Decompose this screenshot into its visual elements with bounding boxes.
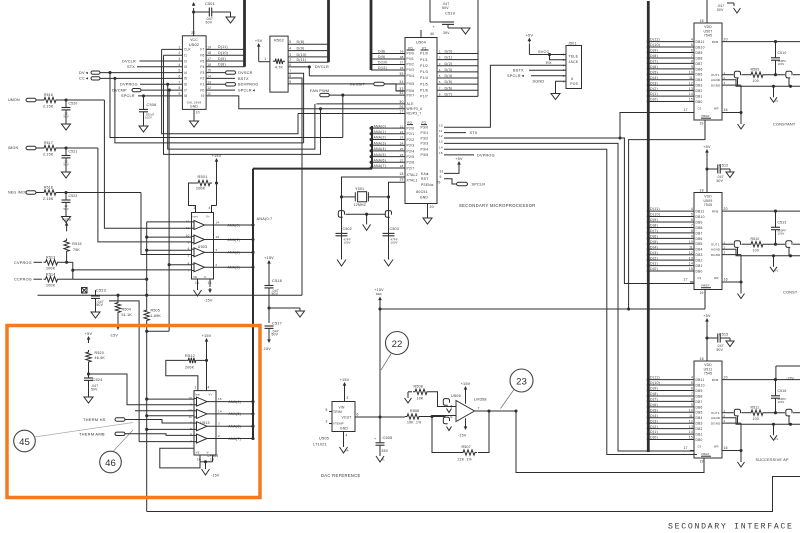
svg-text:19: 19 (700, 459, 704, 463)
svg-text:U502: U502 (189, 42, 200, 47)
svg-text:CVPROG: CVPROG (14, 261, 32, 265)
callout circle 22 (386, 332, 409, 355)
svg-text:22: 22 (400, 130, 404, 134)
svg-text:P2/6: P2/6 (407, 161, 415, 165)
svg-text:P3/4: P3/4 (421, 148, 429, 152)
main column continues to bottom (146, 323, 148, 512)
wire to U513 pin7 long vertical (109, 301, 139, 442)
svg-text:5: 5 (691, 213, 693, 217)
svg-text:TRIM: TRIM (333, 410, 342, 414)
svg-text:D(8): D(8) (297, 40, 305, 44)
svg-text:200K: 200K (185, 366, 195, 370)
digital ground at U509 (740, 255, 742, 294)
capacitor C505 (379, 417, 381, 443)
U507 RFB line (722, 41, 800, 43)
svg-text:+5V: +5V (455, 157, 463, 161)
svg-text:12: 12 (689, 251, 693, 255)
U511 RFB line (722, 379, 800, 381)
svg-text:DB8: DB8 (696, 394, 703, 398)
svg-text:DB10: DB10 (696, 45, 705, 49)
op-amp section out ANA(4) (197, 397, 208, 406)
svg-text:1: 1 (193, 206, 195, 210)
svg-text:30: 30 (399, 100, 403, 104)
svg-text:R507: R507 (462, 445, 471, 449)
svg-text:-15V: -15V (263, 347, 272, 351)
wire U502 pin1 CLK (162, 48, 183, 50)
svg-text:34: 34 (399, 80, 403, 84)
svg-text:10K: 10K (417, 397, 424, 401)
power +5V at C512 (706, 151, 708, 155)
svg-text:P3/2: P3/2 (421, 136, 429, 140)
svg-text:DB1: DB1 (696, 264, 703, 268)
svg-text:14: 14 (689, 92, 693, 96)
ground branch (269, 307, 300, 309)
svg-text:51.1K: 51.1K (122, 313, 133, 317)
wire output to U511 VREF (516, 411, 704, 473)
svg-text:4.7K: 4.7K (275, 65, 284, 69)
svg-text:R505: R505 (151, 308, 160, 312)
bus D(10) from U502 pin18 (206, 54, 244, 56)
op-amp section out ANA(6) (197, 422, 208, 431)
resistor R513 100K (44, 260, 60, 265)
svg-text:F1: F1 (200, 83, 204, 87)
svg-text:DGND: DGND (711, 421, 720, 425)
svg-text:ANA(7): ANA(7) (229, 437, 241, 441)
wire D(5) into U509 (648, 243, 694, 245)
svg-text:7: 7 (691, 54, 693, 58)
svg-text:6: 6 (179, 74, 181, 78)
svg-text:D(9): D(9) (378, 55, 385, 59)
svg-text:3: 3 (179, 57, 181, 61)
wire FAN PWM vertical (342, 95, 344, 137)
svg-text:XTAL2: XTAL2 (407, 173, 418, 177)
svg-text:39: 39 (400, 50, 404, 54)
svg-text:U506: U506 (451, 394, 461, 398)
wire D(11) into U504 pin 36 (371, 69, 405, 71)
svg-text:SUCCESSIVE AP: SUCCESSIVE AP (756, 458, 789, 462)
wire D(9) into U511 (648, 390, 694, 392)
svg-text:ALE: ALE (407, 102, 415, 106)
svg-text:I8: I8 (184, 94, 187, 98)
svg-text:GND: GND (420, 196, 429, 200)
wire VDD U509 (706, 155, 708, 193)
wire VCC to U502 (193, 8, 195, 36)
wire D(1) into U509 (648, 265, 694, 267)
svg-text:VL: VL (775, 437, 779, 441)
wire ANA(4) into U504 pin 25 (372, 150, 405, 152)
svg-text:1: 1 (264, 57, 266, 61)
svg-text:RFB: RFB (712, 40, 718, 44)
svg-text:DGND: DGND (711, 253, 720, 257)
svg-text:DB8: DB8 (696, 226, 703, 230)
svg-text:15: 15 (689, 267, 693, 271)
wire R506 to minus input (421, 416, 456, 417)
svg-text:P0/3: P0/3 (407, 68, 414, 72)
U509 RFB line (722, 210, 800, 212)
svg-text:ANA(5): ANA(5) (229, 412, 241, 416)
svg-text:AGND: AGND (711, 248, 720, 252)
svg-text:D(7): D(7) (650, 60, 658, 64)
svg-text:J501: J501 (568, 42, 577, 46)
svg-text:VL: VL (775, 99, 779, 103)
callout circle 23 (510, 369, 533, 392)
svg-text:22: 22 (392, 339, 403, 350)
svg-text:DB3: DB3 (696, 253, 703, 257)
svg-text:D(5): D(5) (650, 240, 658, 244)
resistor network R502 4.7K (270, 36, 288, 92)
svg-text:CLK: CLK (184, 48, 192, 52)
svg-text:5: 5 (179, 69, 181, 73)
wire P3/0 to J501 RX (444, 65, 566, 127)
svg-text:C506: C506 (147, 103, 157, 107)
svg-text:4: 4 (208, 385, 210, 389)
svg-text:LT1021: LT1021 (313, 442, 327, 446)
svg-text:D(7): D(7) (650, 229, 658, 233)
svg-text:BSTX: BSTX (238, 77, 249, 81)
wire +15V REF vertical (379, 300, 381, 417)
svg-text:3: 3 (218, 422, 220, 426)
ground at C520 (65, 110, 67, 124)
svg-text:19: 19 (207, 45, 211, 49)
svg-text:2.15K: 2.15K (43, 105, 54, 109)
wire U509 pin16 (722, 281, 741, 283)
svg-text:100: 100 (753, 249, 759, 253)
svg-text:P0/0: P0/0 (407, 52, 414, 56)
svg-text:DB9: DB9 (696, 51, 703, 55)
leader line 23 (501, 390, 515, 409)
svg-text:100K: 100K (46, 267, 56, 271)
wire ANA(1) into U504 pin 22 (372, 133, 405, 135)
svg-text:50V: 50V (717, 348, 724, 352)
power +5V at R502 (258, 45, 260, 49)
svg-text:50V: 50V (442, 6, 449, 10)
svg-text:IMON: IMON (8, 146, 18, 150)
wire ANA(0) into U504 pin 21 (372, 127, 405, 129)
svg-text:6: 6 (450, 415, 452, 419)
IC U513 quad comparator (194, 391, 216, 455)
svg-text:23: 23 (516, 376, 527, 387)
wire UMON route to U503 (104, 100, 191, 228)
svg-text:C517: C517 (272, 322, 282, 326)
svg-text:C518: C518 (272, 279, 282, 283)
svg-text:18: 18 (700, 19, 704, 23)
wire R502 pin9 to U504 P0/6 (288, 84, 405, 91)
svg-text:20: 20 (724, 38, 728, 42)
svg-text:7: 7 (188, 268, 190, 272)
ground at C523 (95, 298, 97, 312)
svg-text:18: 18 (399, 172, 403, 176)
svg-text:D(10): D(10) (378, 61, 388, 65)
svg-text:7545: 7545 (704, 371, 712, 375)
svg-text:2.15K: 2.15K (43, 153, 54, 157)
svg-text:8: 8 (691, 398, 693, 402)
svg-text:17: 17 (684, 108, 688, 112)
svg-text:+15V: +15V (202, 334, 212, 338)
svg-text:D(9): D(9) (297, 47, 305, 51)
svg-text:+: + (374, 437, 376, 441)
wire to U513 T4b (139, 441, 194, 443)
svg-text:P1/7: P1/7 (420, 95, 428, 99)
svg-text:R509: R509 (751, 67, 760, 71)
svg-text:5: 5 (691, 43, 693, 47)
svg-text:ANA(4): ANA(4) (229, 400, 241, 404)
svg-text:STX: STX (127, 65, 135, 69)
svg-text:10: 10 (196, 111, 200, 115)
wire D(8) into U504 pin 39 (371, 53, 405, 55)
op-amp section out ANA(5) (197, 409, 208, 418)
svg-text:+15V: +15V (212, 154, 222, 158)
ground at C512 (729, 169, 731, 172)
capacitor C506 (143, 96, 145, 110)
svg-text:P1/6: P1/6 (420, 88, 428, 92)
svg-text:RST: RST (421, 177, 428, 181)
svg-text:V+: V+ (206, 214, 210, 218)
svg-text:C522: C522 (69, 194, 78, 198)
resistor R516 2.15K (36, 99, 42, 101)
svg-text:8: 8 (190, 433, 192, 437)
wire R502 pin6 DVCLR (288, 66, 309, 68)
ANA bus thick horizontal (253, 168, 372, 170)
svg-text:DB9: DB9 (696, 389, 703, 393)
svg-text:ANA(3): ANA(3) (374, 141, 386, 145)
svg-text:4: 4 (691, 207, 693, 211)
svg-text:9: 9 (691, 65, 693, 69)
svg-text:DB10: DB10 (696, 383, 705, 387)
svg-text:CS: CS (698, 108, 702, 111)
resistor R506 19K (405, 414, 421, 419)
svg-text:-15V: -15V (204, 299, 213, 303)
svg-text:D(5): D(5) (445, 80, 453, 84)
wire P3/3 chip-select U511 (444, 143, 694, 451)
svg-text:THERM AMB: THERM AMB (79, 431, 105, 436)
wire D(6) into U509 (648, 237, 694, 239)
wire ANA(2) into U504 pin 23 (372, 139, 405, 141)
wire D(1) into U507 (648, 95, 694, 97)
svg-text:R515: R515 (72, 242, 81, 246)
svg-text:VOUT: VOUT (342, 416, 352, 420)
svg-text:V-: V- (204, 275, 207, 279)
svg-text:DB2: DB2 (696, 89, 703, 93)
svg-text:50V: 50V (206, 21, 213, 25)
svg-text:D(2): D(2) (650, 87, 658, 91)
svg-text:R517: R517 (44, 141, 53, 145)
svg-text:18: 18 (700, 188, 704, 192)
svg-text:14: 14 (689, 262, 693, 266)
svg-text:+5V: +5V (703, 145, 711, 149)
svg-text:26: 26 (399, 105, 403, 109)
svg-text:D(7): D(7) (445, 93, 453, 97)
wire ANA(3) into U504 pin 24 (372, 144, 405, 146)
signal BDVPROG from U502 pin13 (206, 83, 225, 85)
svg-text:ANA(1): ANA(1) (228, 238, 240, 242)
svg-text:DB6: DB6 (696, 67, 703, 71)
svg-text:D(1): D(1) (445, 56, 453, 60)
wire R502 pin3 D(10) (288, 56, 328, 58)
svg-text:20: 20 (724, 207, 728, 211)
svg-text:1.69K: 1.69K (151, 314, 162, 318)
svg-text:3: 3 (216, 248, 218, 252)
svg-text:OUT1: OUT1 (711, 242, 720, 246)
svg-text:D(2): D(2) (650, 256, 658, 260)
svg-text:13: 13 (689, 256, 693, 260)
svg-text:11: 11 (689, 245, 693, 249)
svg-text:6: 6 (190, 420, 192, 424)
capacitor C521 (65, 148, 67, 156)
svg-text:DB1: DB1 (696, 433, 703, 437)
svg-text:F4: F4 (200, 65, 204, 69)
svg-text:10: 10 (689, 240, 693, 244)
svg-text:DVCMP: DVCMP (112, 88, 127, 92)
svg-text:2: 2 (218, 434, 220, 438)
wire D(11) into U511 (648, 379, 694, 381)
svg-text:20: 20 (724, 376, 728, 380)
bus D(8) from U502 pin16 (206, 66, 244, 68)
ground at C506 (143, 112, 145, 126)
wire into U504 P0/4 (309, 75, 405, 77)
svg-text:DGND: DGND (711, 83, 720, 87)
svg-text:DVPROG: DVPROG (477, 154, 495, 158)
svg-text:D(1): D(1) (650, 92, 658, 96)
svg-text:F0: F0 (200, 88, 204, 92)
wire P3/4 write chain (444, 149, 697, 454)
svg-text:5: 5 (325, 408, 327, 412)
svg-text:D(3): D(3) (650, 81, 658, 85)
svg-text:CONST: CONST (783, 290, 798, 294)
wire D(9) into U507 (648, 52, 694, 54)
svg-text:-15V: -15V (110, 333, 119, 337)
resistor R515 75K (66, 228, 68, 231)
resistor R509 100 (749, 72, 765, 77)
svg-text:14: 14 (207, 74, 211, 78)
svg-text:6: 6 (691, 387, 693, 391)
wire vertical from CC (115, 78, 304, 142)
U504 P0/6 row (396, 90, 405, 92)
ground at C519 (461, 28, 470, 34)
svg-text:P0/5: P0/5 (407, 82, 415, 86)
connector J501 TELE JACK (566, 46, 582, 89)
svg-text:3: 3 (439, 62, 441, 66)
wire D(0) into U507 (648, 101, 694, 103)
svg-text:C510: C510 (778, 51, 787, 55)
svg-text:D(1): D(1) (650, 262, 658, 266)
svg-text:I3: I3 (184, 65, 187, 69)
svg-text:7: 7 (439, 86, 441, 90)
wire R502 pin7 down (288, 73, 304, 143)
capacitor C518 (268, 266, 270, 286)
IC U503 quad comparator (192, 213, 214, 280)
svg-text:50V: 50V (717, 179, 724, 183)
svg-text:2: 2 (179, 51, 181, 55)
svg-text:16: 16 (207, 63, 211, 67)
power +5V at R520 (88, 338, 90, 342)
svg-text:ANA(3): ANA(3) (228, 266, 240, 270)
svg-text:P0/1: P0/1 (407, 57, 414, 61)
svg-text:D(6): D(6) (445, 86, 453, 90)
callout circle 45 (14, 430, 36, 452)
svg-text:P1/3: P1/3 (420, 70, 428, 74)
svg-text:GND: GND (340, 426, 348, 430)
svg-text:31: 31 (440, 169, 444, 173)
svg-text:+15V: +15V (461, 382, 471, 386)
ground at U503 (194, 290, 202, 296)
svg-text:8: 8 (289, 74, 291, 78)
wire CS to U507 (620, 113, 694, 139)
svg-text:CS: CS (698, 277, 702, 280)
wire D(8) into U511 (648, 395, 694, 397)
power -15V at C517 (268, 339, 270, 342)
svg-text:4: 4 (289, 47, 291, 51)
wire D(7) into U509 (648, 232, 694, 234)
svg-text:22K .1%: 22K .1% (458, 457, 472, 461)
svg-text:SGND: SGND (533, 80, 545, 84)
resistor R518 2.15K (36, 192, 42, 194)
digital ground at U507 (740, 85, 742, 124)
svg-text:VTEMP: VTEMP (333, 421, 344, 425)
power +15V at U506 (465, 388, 467, 392)
resistor R508 10K (405, 398, 412, 403)
power -15V at U506 (465, 418, 467, 428)
power +5V at U504 EA (458, 163, 460, 167)
svg-text:DB5: DB5 (696, 242, 703, 246)
svg-text:R502: R502 (274, 38, 284, 42)
wire +15V to U513 V+ (206, 344, 208, 391)
wire vertical from CLK to RD route (162, 49, 298, 133)
wire joint to main column (147, 330, 169, 332)
capacitor C524 (84, 377, 93, 379)
wire to U513 T3b (147, 428, 194, 430)
ground at C522 (65, 202, 67, 216)
svg-text:D(11): D(11) (650, 376, 660, 380)
svg-text:1: 1 (439, 50, 441, 54)
svg-text:2: 2 (439, 56, 441, 60)
wire D(2) from U504 pin 3 (437, 65, 478, 67)
signal RD/P3.7 from U504 (298, 113, 405, 115)
wire D(4) into U509 (648, 248, 694, 250)
svg-text:5: 5 (289, 40, 291, 44)
svg-text:18: 18 (700, 357, 704, 361)
svg-text:PSEN►: PSEN► (421, 183, 434, 187)
svg-text:DB10: DB10 (696, 215, 705, 219)
svg-text:D(10): D(10) (218, 51, 228, 55)
resistor R514 100K (44, 277, 60, 282)
svg-text:D(0): D(0) (650, 436, 658, 440)
svg-text:20: 20 (430, 205, 434, 209)
svg-text:POS: POS (570, 82, 578, 86)
svg-text:12: 12 (689, 81, 693, 85)
svg-text:29: 29 (437, 181, 441, 185)
svg-text:I1: I1 (184, 54, 187, 58)
wire U502 pin2 I1 (164, 54, 183, 56)
svg-text:75K: 75K (73, 248, 80, 252)
op-amp section out ANA(7) (197, 434, 208, 443)
wire D(3) from U504 pin 4 (437, 71, 478, 73)
wire CCPROG joint (72, 270, 74, 279)
svg-text:VE: VE (193, 275, 197, 279)
svg-text:6: 6 (571, 77, 573, 81)
svg-text:16: 16 (724, 108, 728, 112)
resistor R504 51.1K (117, 295, 119, 300)
svg-text:AGND: AGND (711, 78, 720, 82)
wire D(5) into U507 (648, 73, 694, 75)
wire NEG IMON route to U503 (141, 193, 192, 255)
svg-text:SPCLR◄: SPCLR◄ (507, 74, 525, 78)
wire SVCC (528, 44, 530, 55)
svg-text:D(1): D(1) (650, 430, 658, 434)
leader line 22 (381, 353, 392, 370)
svg-text:D(8): D(8) (650, 224, 658, 228)
wire DVCLR branch down (308, 67, 310, 76)
svg-text:D(6): D(6) (650, 403, 658, 407)
